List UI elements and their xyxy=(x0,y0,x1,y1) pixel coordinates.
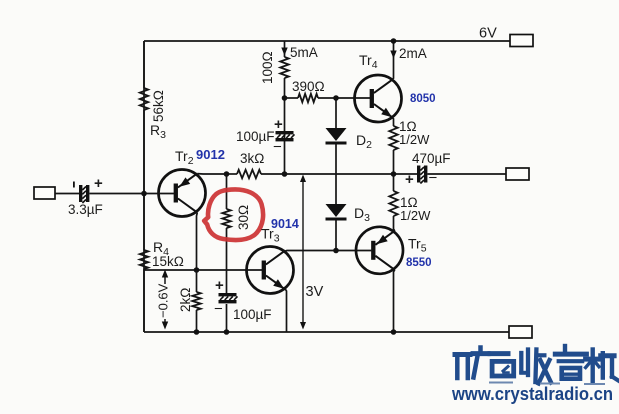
left rail xyxy=(143,41,145,332)
svg-text:9014: 9014 xyxy=(271,217,299,231)
Tr3 emitter wire to bottom rail xyxy=(285,289,286,332)
capacitor 100uF (left, bootstrap) xyxy=(276,131,294,134)
input wire xyxy=(55,193,79,195)
watermark char 2 (shi) xyxy=(490,354,514,376)
Tr2 collector wire down xyxy=(196,213,199,270)
mid-left row: R4 bottom to Tr3 base xyxy=(144,269,262,271)
svg-text:9012: 9012 xyxy=(196,147,225,162)
ground terminal box xyxy=(509,326,532,338)
watermark char 5 (ji) xyxy=(586,350,619,382)
svg-text:100µF: 100µF xyxy=(233,307,272,322)
svg-text:5mA: 5mA xyxy=(290,45,318,60)
resistor R4 15k xyxy=(143,194,145,250)
D2-D3 link wire (crosses output row, no junction) xyxy=(335,144,337,204)
svg-text:390Ω: 390Ω xyxy=(292,79,325,94)
resistor 30 ohm xyxy=(226,174,228,209)
capacitor 470uF (output) xyxy=(417,166,420,183)
svg-text:+: + xyxy=(215,277,224,294)
svg-text:30Ω: 30Ω xyxy=(236,205,251,230)
dimension annotation 3V xyxy=(302,178,304,326)
resistor R3 56k xyxy=(143,41,145,88)
svg-text:−: − xyxy=(429,170,438,187)
transistor Tr2 (PNP 9012) xyxy=(159,170,206,217)
svg-text:+: + xyxy=(274,116,283,133)
svg-text:−: − xyxy=(273,139,282,156)
2mA current arrow xyxy=(390,51,396,59)
svg-text:+: + xyxy=(94,175,103,192)
5mA current arrow xyxy=(281,48,287,56)
svg-text:−0.6V: −0.6V xyxy=(156,283,171,318)
svg-text:2kΩ: 2kΩ xyxy=(178,288,193,312)
watermark small artifacts xyxy=(490,382,512,384)
svg-text:56kΩ: 56kΩ xyxy=(151,90,166,122)
svg-text:2mA: 2mA xyxy=(399,46,427,61)
svg-text:1/2W: 1/2W xyxy=(399,132,430,147)
Tr4 emitter wire down to 1 ohm xyxy=(392,118,394,126)
input cap polarity marks xyxy=(73,182,75,188)
svg-text:6V: 6V xyxy=(479,26,497,42)
svg-text:100Ω: 100Ω xyxy=(260,51,275,84)
bottom rail (ground return) xyxy=(144,331,509,333)
red annotation circle around 30 ohm xyxy=(204,189,263,240)
resistor 1 ohm 1/2W (lower) xyxy=(393,174,395,191)
transistor Tr3 (NPN 9014) xyxy=(247,247,294,294)
node: output row / 100uF column xyxy=(282,171,288,177)
transistor Tr5 (PNP 8550) xyxy=(356,227,403,274)
capacitor 100uF (emitter bypass, on 30ohm column) xyxy=(219,293,237,296)
input terminal box xyxy=(34,187,55,199)
Tr5 collector wire down to rail xyxy=(394,270,395,332)
svg-text:470µF: 470µF xyxy=(412,151,451,166)
diode D3 xyxy=(326,204,347,217)
Tr3 collector wire to Tr5 base xyxy=(285,250,371,252)
watermark char 4 (yin) xyxy=(555,346,586,379)
Tr2 emitter wire to 3k node xyxy=(197,173,226,175)
svg-text:15kΩ: 15kΩ xyxy=(152,254,184,269)
output terminal box xyxy=(506,168,529,180)
resistor 100 ohm (5mA branch) xyxy=(284,41,286,57)
transistor Tr4 (NPN 8050) xyxy=(355,75,402,122)
resistor 1 ohm 1/2W (upper) xyxy=(389,126,397,150)
svg-text:www.crystalradio.cn: www.crystalradio.cn xyxy=(451,384,613,404)
resistor 3k xyxy=(227,173,238,175)
svg-text:3V: 3V xyxy=(306,284,324,300)
svg-text:8550: 8550 xyxy=(406,257,432,269)
Tr2 base wire xyxy=(144,193,174,195)
svg-text:100µF: 100µF xyxy=(236,129,275,144)
resistor 390 ohm xyxy=(285,97,299,99)
node: 100ohm / 390ohm junction xyxy=(282,95,288,101)
svg-text:3.3µF: 3.3µF xyxy=(68,202,103,217)
watermark char 3 (shou) xyxy=(521,350,551,384)
top rail (6V supply) xyxy=(144,40,510,42)
svg-text:−: − xyxy=(214,301,223,318)
output wire to 470uF xyxy=(285,173,418,175)
diode D2 xyxy=(335,98,337,128)
capacitor 3.3uF (input) xyxy=(79,185,82,202)
svg-text:1/2W: 1/2W xyxy=(400,208,431,223)
watermark char 1 (kuang) xyxy=(455,348,488,379)
svg-text:+: + xyxy=(405,171,414,188)
svg-text:8050: 8050 xyxy=(410,93,436,105)
resistor 2k xyxy=(196,270,198,292)
Tr4 collector wire to 6V rail xyxy=(392,41,394,79)
svg-text:3kΩ: 3kΩ xyxy=(240,151,264,166)
Tr5 emitter wire up to 1 ohm xyxy=(394,227,395,231)
6V terminal box xyxy=(510,35,533,47)
dimension annotation -0.6V xyxy=(164,277,166,284)
